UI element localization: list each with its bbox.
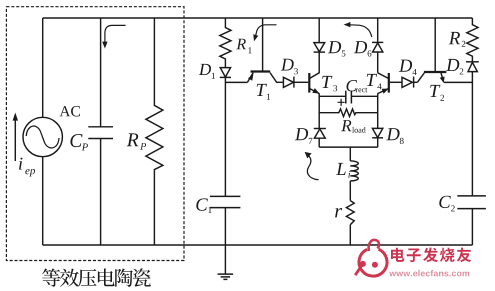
wire D3 to T3 base <box>294 81 308 83</box>
diode D5 (cathode down) <box>314 43 325 52</box>
T2 emitter limb <box>441 73 443 81</box>
label D2 <box>446 59 463 75</box>
label T4 <box>367 74 382 89</box>
rectifier bottom wire <box>319 146 378 148</box>
wire D4 to T2 <box>414 81 418 83</box>
wire node to Li <box>349 147 351 161</box>
wire C1 to bottom bus <box>224 208 226 245</box>
label 等效压电陶瓷 (equivalent piezoelectric ceramic) <box>42 268 151 287</box>
wire D6 to T4 collector <box>377 52 379 73</box>
label D6 <box>354 41 372 56</box>
label D5 <box>328 41 346 56</box>
watermark url www.elecfans.com <box>389 270 469 277</box>
resistor RP <box>146 18 163 245</box>
transistor T4 bar <box>388 73 390 93</box>
label C2 <box>439 196 454 212</box>
plus sign <box>338 99 345 106</box>
diode D1 (cathode down) <box>220 68 230 78</box>
label Crect <box>347 80 368 92</box>
wire T1 base lead to top bus <box>262 18 264 71</box>
curved current arrow near D7 <box>307 156 318 180</box>
ground <box>218 245 234 279</box>
T3 collector limb and wire to D5 <box>309 52 319 78</box>
resistor r <box>346 201 354 225</box>
T1 emitter arrow <box>248 74 253 81</box>
capacitor C2 plates <box>457 196 486 209</box>
wire bottom bus <box>43 244 473 246</box>
label T2 <box>430 85 444 101</box>
wire CP rail lower <box>100 139 102 245</box>
curved current arrow in piezo box <box>105 25 126 42</box>
T1 emitter limb <box>247 73 253 83</box>
label AC <box>60 106 81 117</box>
label D1 <box>199 64 215 79</box>
T4 emitter with arrow <box>378 88 389 93</box>
wire top bus to D5 <box>318 18 320 43</box>
transistor T2 base bar <box>424 71 446 73</box>
AC source sine wave <box>26 126 59 148</box>
T4 collector <box>378 73 389 79</box>
wire r to bottom bus <box>349 225 351 245</box>
AC source V1 circle <box>23 117 62 156</box>
resistor R1 <box>220 18 231 68</box>
capacitor CP plates <box>88 127 113 139</box>
capacitor C1 plates <box>210 196 241 207</box>
label r <box>335 208 342 217</box>
transistor T3 bar <box>308 73 310 93</box>
label T3 <box>322 76 337 91</box>
label D3 <box>281 59 298 75</box>
inductor Li coil <box>350 161 358 181</box>
watermark text 电子发烧友 <box>391 248 471 263</box>
watermark logo (elecfans) <box>355 240 387 276</box>
label T1 <box>257 84 270 100</box>
resistor Rload (horizontal) <box>319 109 378 117</box>
diode D2 (cathode up) <box>466 61 479 63</box>
node wire D1 to T1 emitter <box>225 81 247 83</box>
label R1 <box>236 39 251 54</box>
label i_ep <box>19 158 35 177</box>
transistor T1 base bar <box>251 70 271 72</box>
wire Crect to T4 emitter <box>351 95 377 97</box>
curved current arrow at T1 <box>256 25 277 36</box>
label R2 <box>449 32 466 47</box>
T1 collector limb and wire to D3 <box>270 73 283 83</box>
current arrow i_ep <box>14 120 16 161</box>
wire top bus <box>43 17 473 19</box>
wire right rectifier rail (T4 emitter to D8) <box>377 93 379 147</box>
T4 base wire to D4 <box>389 81 402 83</box>
diode D7 (cathode up) <box>314 128 326 130</box>
label Li <box>336 163 350 178</box>
dashed box: equivalent piezoelectric ceramic <box>6 7 184 261</box>
label C1 <box>196 198 211 213</box>
label Rload <box>341 120 366 133</box>
curved current arrow near D6 <box>350 25 372 37</box>
wire source rail lower <box>42 157 44 245</box>
wire T2 base lead to top bus <box>434 18 436 71</box>
wire T2 emitter to R2 branch <box>444 81 473 83</box>
diode D4 (points right) <box>402 77 412 87</box>
diode D8 (cathode down) <box>372 128 382 137</box>
diode D3 (points right) <box>283 77 293 87</box>
label D4 <box>399 60 417 75</box>
wire CP rail upper <box>100 18 102 127</box>
T2 collector limb <box>417 73 424 82</box>
T3 emitter with arrow <box>309 88 319 93</box>
capacitor Crect plates <box>346 91 352 104</box>
wire left rectifier rail (T3 emitter to D7) <box>318 93 320 147</box>
wire source rail upper <box>42 18 44 117</box>
resistor R2 <box>467 18 478 62</box>
wire T3 emitter to Crect <box>319 95 346 97</box>
wire D1 to C1 rail <box>224 77 226 196</box>
label D8 <box>386 128 403 144</box>
wire Li to r <box>349 181 351 201</box>
T2 emitter arrow <box>440 77 445 84</box>
wire top bus to D6 <box>377 18 379 42</box>
wire C2 to bottom bus <box>471 209 473 245</box>
diode D6 (cathode up) <box>372 41 383 43</box>
label D7 <box>295 128 313 144</box>
label CP <box>70 134 88 150</box>
label RP <box>127 133 146 149</box>
